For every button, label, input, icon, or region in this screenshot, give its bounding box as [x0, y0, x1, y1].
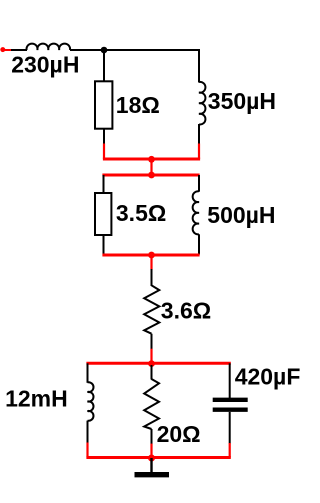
wire: red input stub: [3, 49, 12, 51]
wire: R4 bottom black: [151, 429, 153, 444]
resistor R2 3.5Ω body: [95, 193, 111, 235]
node: red dot on bottom bus of box3: [148, 455, 155, 462]
wire: C1 bottom black: [229, 412, 231, 444]
svg-text:12mH: 12mH: [5, 385, 68, 411]
svg-text:3.6Ω: 3.6Ω: [161, 298, 211, 324]
wire: red stub to bus3: [150, 349, 152, 364]
wire red: C1 drop to bottom bus: [229, 443, 231, 458]
wire red: L4 drop to bottom bus: [86, 443, 88, 458]
wire: R3 bottom black: [151, 334, 153, 349]
wire: L2 bottom black: [198, 124, 200, 144]
node: top junction dot: [101, 47, 108, 54]
resistor R1 18Ω body: [95, 81, 112, 128]
wire: box3 right drop to C1: [229, 363, 231, 398]
resistor R4 20Ω zigzag: [144, 379, 159, 429]
wire: black to R3: [151, 269, 153, 286]
wire: red stub below box2: [150, 255, 152, 270]
wire: ground stub: [150, 458, 152, 473]
node: red dot on bottom bus of box2: [148, 252, 155, 259]
svg-text:3.5Ω: 3.5Ω: [116, 200, 166, 226]
inductor L2 350µH: [199, 82, 205, 125]
wire: junction down to R1: [103, 50, 105, 81]
wire: red link bus1 to bus2: [150, 159, 152, 175]
wire: R2 bottom to bus: [103, 236, 105, 255]
wire red: R1 drop to bus1: [103, 144, 105, 160]
wire red: R4 drop to bottom bus: [150, 444, 152, 458]
ground symbol bar: [135, 472, 170, 477]
svg-text:350µH: 350µH: [208, 88, 276, 114]
wire: box2 right drop to L3: [198, 175, 200, 192]
resistor R3 3.6Ω zigzag: [144, 285, 159, 333]
capacitor C1 420µF bottom plate: [213, 408, 248, 412]
node: red dot on bus1: [148, 156, 155, 163]
wire: L4 bottom black: [87, 421, 89, 443]
wire: red bus bottom of box3: [86, 456, 230, 459]
wire: input to inductor L1: [11, 49, 27, 51]
svg-text:18Ω: 18Ω: [116, 92, 160, 118]
wire: L1 to top junction: [70, 49, 104, 51]
svg-text:420µF: 420µF: [235, 364, 301, 390]
wire: box2 left drop to R2: [103, 175, 105, 193]
svg-text:500µH: 500µH: [207, 202, 275, 228]
node: red dot on bus2: [148, 172, 155, 179]
inductor L3 500µH: [193, 191, 199, 234]
wire: red bus top of box2: [102, 174, 199, 177]
wire: L3 bottom to bus: [198, 234, 200, 254]
wire red: L2 drop to bus1: [198, 144, 200, 160]
wire: red bus bottom of box1: [103, 158, 200, 161]
wire: red bus top of box3: [86, 362, 230, 365]
inductor L1 230µH: [27, 44, 71, 50]
wire: box3 left drop to L4: [87, 363, 89, 383]
wire: red bus bottom of box2: [102, 254, 199, 257]
wire: R1 bottom black: [103, 130, 105, 145]
capacitor C1 420µF top plate: [213, 398, 248, 402]
wire: box3 middle drop to R4: [151, 365, 153, 380]
inductor L4 12mH: [88, 382, 94, 420]
svg-text:230µH: 230µH: [11, 51, 79, 77]
node: red dot on top bus of box3: [148, 360, 155, 367]
wire: junction to top-right corner and down: [104, 50, 199, 83]
node: input terminal red dot: [0, 47, 5, 52]
svg-text:20Ω: 20Ω: [157, 421, 201, 447]
